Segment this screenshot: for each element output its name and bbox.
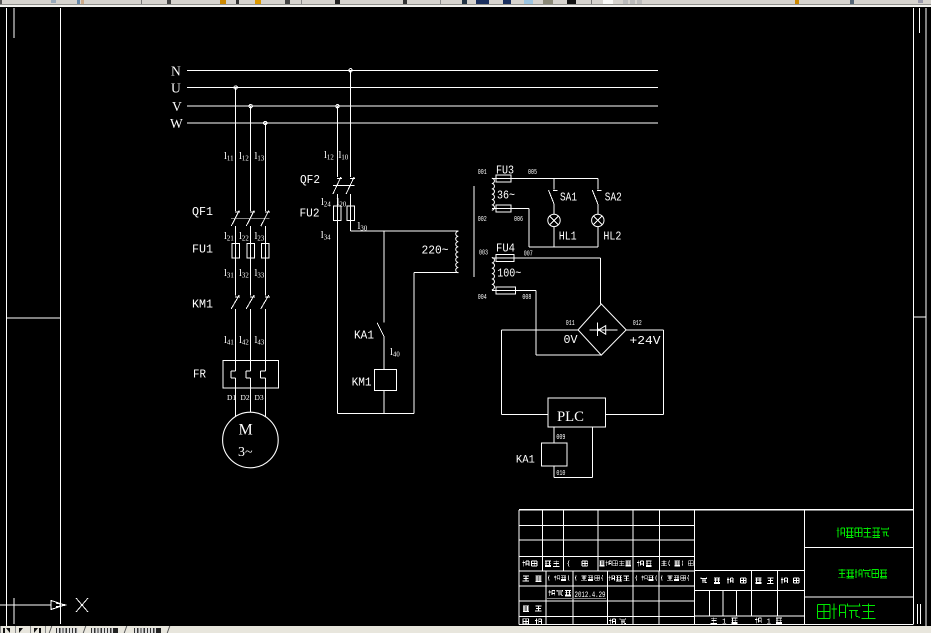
svg-text:012: 012	[633, 320, 642, 328]
svg-text:KA1: KA1	[354, 329, 374, 343]
svg-text:SA2: SA2	[605, 190, 622, 204]
svg-text:100~: 100~	[497, 267, 521, 281]
svg-text:KA1: KA1	[516, 455, 535, 467]
svg-text:l42: l42	[239, 335, 249, 347]
svg-text:U: U	[171, 81, 181, 96]
svg-text:N: N	[171, 63, 181, 78]
svg-text:005: 005	[528, 169, 537, 177]
svg-text:l40: l40	[390, 347, 400, 359]
svg-text:3~: 3~	[238, 445, 253, 460]
svg-text:l12: l12	[324, 150, 334, 162]
svg-text:l31: l31	[224, 268, 234, 280]
svg-text:002: 002	[478, 216, 487, 224]
svg-text:FU1: FU1	[192, 242, 213, 256]
svg-text:003: 003	[479, 250, 488, 258]
svg-text:l22: l22	[239, 231, 249, 243]
svg-text:l23: l23	[255, 231, 265, 243]
svg-text:001: 001	[478, 169, 487, 177]
svg-text:004: 004	[478, 294, 487, 302]
svg-text:l43: l43	[255, 335, 265, 347]
svg-text:HL2: HL2	[603, 229, 621, 243]
svg-text:l24: l24	[321, 197, 331, 209]
svg-text:008: 008	[522, 294, 531, 302]
svg-text:KM1: KM1	[192, 297, 213, 311]
svg-text:007: 007	[524, 251, 533, 259]
svg-text:FR: FR	[193, 367, 206, 381]
svg-text:006: 006	[514, 216, 523, 224]
svg-text:l13: l13	[255, 151, 265, 163]
svg-text:FU2: FU2	[300, 207, 320, 221]
svg-text:D3: D3	[255, 393, 264, 402]
svg-text:V: V	[172, 99, 182, 114]
svg-text:36~: 36~	[497, 189, 515, 203]
svg-text:HL1: HL1	[559, 229, 577, 243]
svg-text:SA1: SA1	[560, 190, 577, 204]
svg-text:l10: l10	[339, 150, 349, 162]
svg-text:KM1: KM1	[352, 376, 372, 390]
svg-text:2012.4.29: 2012.4.29	[575, 590, 606, 600]
svg-text:W: W	[170, 116, 183, 131]
svg-text:l21: l21	[224, 231, 234, 243]
svg-text:l34: l34	[321, 230, 331, 242]
svg-text:D1: D1	[227, 393, 236, 402]
svg-text:0V: 0V	[564, 333, 579, 347]
svg-text:l12: l12	[239, 151, 249, 163]
svg-text:220~: 220~	[422, 244, 449, 258]
svg-text:011: 011	[566, 320, 575, 328]
svg-text:PLC: PLC	[557, 409, 584, 425]
svg-text:l11: l11	[224, 151, 233, 163]
svg-text:QF1: QF1	[192, 205, 213, 219]
svg-text:l32: l32	[239, 268, 249, 280]
svg-text:010: 010	[556, 470, 565, 478]
svg-text:D2: D2	[241, 393, 250, 402]
svg-text:+24V: +24V	[630, 334, 662, 348]
svg-text:l33: l33	[255, 268, 265, 280]
svg-text:l41: l41	[224, 335, 234, 347]
svg-text:QF2: QF2	[300, 173, 320, 187]
svg-text:M: M	[239, 422, 253, 439]
svg-text:009: 009	[556, 434, 565, 442]
svg-text:FU4: FU4	[496, 242, 515, 256]
